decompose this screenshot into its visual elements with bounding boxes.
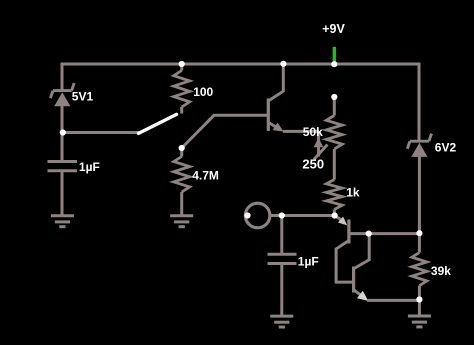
svg-text:1µF: 1µF	[298, 254, 319, 268]
svg-text:39k: 39k	[431, 264, 451, 278]
svg-text:250: 250	[302, 156, 324, 171]
svg-text:4.7M: 4.7M	[192, 168, 219, 182]
svg-text:5V1: 5V1	[72, 89, 94, 103]
svg-text:+9V: +9V	[322, 22, 345, 36]
svg-text:100: 100	[193, 85, 213, 99]
svg-text:1µF: 1µF	[79, 160, 100, 174]
svg-text:50k: 50k	[303, 125, 323, 139]
svg-text:1k: 1k	[346, 185, 360, 199]
svg-text:6V2: 6V2	[435, 141, 457, 155]
